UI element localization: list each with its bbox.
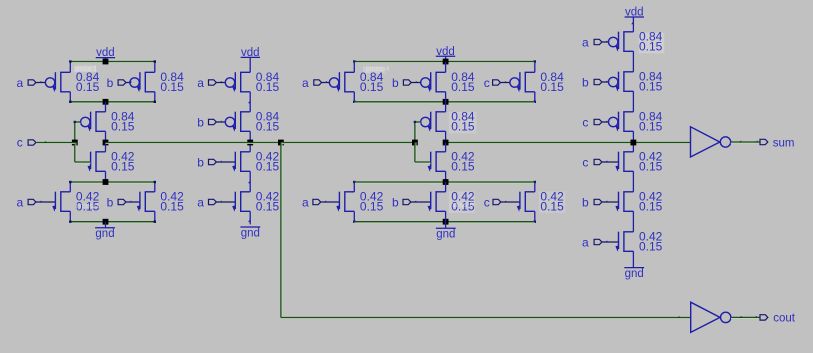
node junction col2 on c-line xyxy=(247,140,253,146)
svg-text:sum: sum xyxy=(773,137,795,149)
svg-text:0.15: 0.15 xyxy=(540,80,564,94)
wire N2 drain stubs xyxy=(154,182,156,192)
svg-text:0.15: 0.15 xyxy=(639,80,663,94)
wire N6 drain stubs xyxy=(353,182,355,192)
svg-text:gnd: gnd xyxy=(436,229,455,241)
wire P1 drain stubs xyxy=(69,62,71,73)
wire chain N4 to gnd xyxy=(249,211,251,224)
wire chain P11-P12 xyxy=(632,91,634,112)
pmos P3 pass gate (0.84/0.15) xyxy=(81,117,90,126)
op-amp style inverter U1 (sum) xyxy=(691,127,720,157)
wire gnd stub group3 xyxy=(445,222,447,228)
wire main net to sum inverter xyxy=(633,143,690,145)
wire chain P5-N5 xyxy=(249,131,251,152)
svg-text:0.15: 0.15 xyxy=(639,40,663,54)
wire chain P3 drain xyxy=(105,102,107,112)
svg-text:0.15: 0.15 xyxy=(540,200,564,214)
wire N8 drain stubs xyxy=(534,182,536,192)
node junction group3 pmos bottom xyxy=(443,99,449,105)
svg-text:gnd: gnd xyxy=(625,268,644,280)
wire U2 output xyxy=(731,318,760,320)
wire group3 pmos-trio bottom rail xyxy=(354,102,535,104)
svg-text:0.15: 0.15 xyxy=(451,160,475,174)
svg-text:a: a xyxy=(16,195,23,209)
ground gnd column4 xyxy=(624,267,644,269)
wire gate of P3 to c-net xyxy=(75,122,77,143)
wire group1 pmos-pair bottom rail xyxy=(70,102,155,104)
node junction group3 nmos top xyxy=(443,179,449,185)
wire cout branch horizontal xyxy=(281,318,691,320)
svg-text:b: b xyxy=(582,195,589,209)
wire main net segment 1 xyxy=(106,143,251,145)
svg-text:b: b xyxy=(197,155,204,169)
svg-text:0.15: 0.15 xyxy=(256,80,280,94)
wire tick chain P4-P5 xyxy=(248,101,250,104)
wire chain P4-P5 xyxy=(249,92,251,112)
node vdd junction group1 xyxy=(103,59,109,65)
wire chain N12-N11 xyxy=(632,171,634,192)
label highlight patches xyxy=(639,33,665,54)
node junction c-line at gate column xyxy=(72,140,78,146)
wire tick U2 output b xyxy=(754,316,757,318)
svg-text:c: c xyxy=(484,195,490,209)
svg-text:b: b xyxy=(582,75,589,89)
svg-text:nmos-6: nmos-6 xyxy=(450,202,473,209)
node corner dot P3 gate xyxy=(74,121,76,123)
wire group3 nmos-trio top rail xyxy=(354,182,535,184)
svg-text:0.15: 0.15 xyxy=(160,200,184,214)
svg-text:0.15: 0.15 xyxy=(76,80,100,94)
wire tick chain N5-N4 xyxy=(248,181,250,184)
wire chain N9 xyxy=(445,143,447,152)
svg-text:0.15: 0.15 xyxy=(639,120,663,134)
wire P2 drain stubs xyxy=(154,62,156,73)
svg-text:nmos-1: nmos-1 xyxy=(76,203,99,210)
nmos N3 pass gate (0.42/0.15) xyxy=(90,152,92,169)
wire gate of N9 to net xyxy=(415,143,417,163)
pmos P9 pass gate (0.84/0.15) xyxy=(421,117,430,126)
nmos N9 pass gate (0.42/0.15) xyxy=(430,152,432,169)
svg-text:0.15: 0.15 xyxy=(256,200,280,214)
ground gnd column2 xyxy=(240,226,260,228)
wire tick U1 output b xyxy=(755,141,758,143)
node junction group3 nmos bottom xyxy=(443,219,449,225)
node c input pin xyxy=(28,140,36,145)
wire vdd stub group3 xyxy=(445,56,447,61)
wire group3 nmos-trio bottom rail xyxy=(354,222,535,224)
svg-text:0.15: 0.15 xyxy=(451,80,475,94)
svg-text:pmos-1: pmos-1 xyxy=(74,66,97,73)
svg-text:cout: cout xyxy=(773,312,796,324)
svg-text:c: c xyxy=(582,115,588,129)
wire P7 drain stubs xyxy=(445,62,447,73)
svg-text:gnd: gnd xyxy=(95,228,114,240)
wire tick chain col4 top xyxy=(631,22,633,25)
svg-text:a: a xyxy=(302,76,309,90)
svg-text:c: c xyxy=(484,76,490,90)
wire gate of P9 to net xyxy=(415,122,417,143)
svg-text:0.15: 0.15 xyxy=(639,240,663,254)
svg-text:0.15: 0.15 xyxy=(360,80,384,94)
op-amp style inverter U2 (cout) xyxy=(691,302,720,332)
svg-text:b: b xyxy=(392,195,399,209)
node corner dot P9 gate xyxy=(414,121,416,123)
svg-text:b: b xyxy=(107,76,114,90)
node junction net at P9/N9 drain xyxy=(443,140,449,146)
wire chain N3 xyxy=(105,143,107,152)
wire tick cout branch xyxy=(677,316,680,318)
ground gnd group3 xyxy=(436,227,456,229)
svg-text:a: a xyxy=(16,76,23,90)
node junction group1 nmos-pair bottom xyxy=(103,219,109,225)
wire vdd stub group1 xyxy=(105,58,107,62)
wire chain col4 vdd to P10 xyxy=(632,17,634,32)
wire P6 drain stubs xyxy=(353,62,355,73)
wire tick U1 output a xyxy=(739,141,742,143)
svg-text:0.15: 0.15 xyxy=(160,80,184,94)
svg-text:gnd: gnd xyxy=(241,227,260,239)
wire tick U2 output a xyxy=(739,316,742,318)
node cout output pin xyxy=(760,315,768,320)
wire vdd rail group1 xyxy=(70,62,155,64)
svg-text:0.15: 0.15 xyxy=(256,160,280,174)
wire main net segment 3 xyxy=(281,143,415,145)
wire vdd rail group3 xyxy=(354,62,535,64)
node junction cout branch xyxy=(278,140,284,146)
svg-text:0.15: 0.15 xyxy=(111,160,135,174)
wire group1 nmos-pair top rail xyxy=(70,182,155,184)
svg-text:a: a xyxy=(197,195,204,209)
svg-text:0.15: 0.15 xyxy=(360,200,384,214)
wire main net segment 2 xyxy=(250,143,281,145)
wire gnd stub group1 xyxy=(105,222,107,228)
wire group1 nmos-pair bottom rail xyxy=(70,222,155,224)
node rail end dots xyxy=(69,60,71,62)
svg-text:pmos-4: pmos-4 xyxy=(366,66,389,73)
node junction col4 on net xyxy=(631,140,637,146)
svg-text:a: a xyxy=(302,195,309,209)
svg-text:0.15: 0.15 xyxy=(451,120,475,134)
node junction net at group3 gate column xyxy=(412,140,418,146)
svg-text:b: b xyxy=(197,115,204,129)
wire c input to net xyxy=(37,143,75,145)
wire U1 output xyxy=(731,142,760,144)
wire N1 drain stubs xyxy=(69,182,71,192)
svg-text:0.15: 0.15 xyxy=(256,120,280,134)
svg-text:b: b xyxy=(107,195,114,209)
wire tick c input xyxy=(43,141,46,143)
wire chain P9 drain xyxy=(445,102,447,112)
svg-text:0.15: 0.15 xyxy=(639,160,663,174)
svg-text:b: b xyxy=(392,76,399,90)
svg-text:a: a xyxy=(582,235,589,249)
ground gnd group1 xyxy=(95,227,115,229)
wire gate of N3 to c-net xyxy=(75,143,77,163)
wire chain N11-N10 xyxy=(632,211,634,232)
wire cout branch vertical xyxy=(281,143,283,318)
node junction c-line at P3/N3 drain xyxy=(103,140,109,146)
svg-text:c: c xyxy=(582,155,588,169)
svg-text:0.15: 0.15 xyxy=(639,200,663,214)
wire chain P10-P11 xyxy=(632,51,634,72)
node junction group1 nmos-pair top xyxy=(103,179,109,185)
node vdd junction group3 xyxy=(443,59,449,65)
wire chain col2 vdd to P4 xyxy=(249,57,251,72)
wire main net segment 4 xyxy=(446,143,634,145)
wire chain N5-N4 xyxy=(249,171,251,192)
svg-text:0.15: 0.15 xyxy=(111,120,135,134)
wire P8 drain stubs xyxy=(534,62,536,73)
node sum output pin xyxy=(760,139,768,144)
wire chain P12-N12 xyxy=(632,131,634,152)
wire chain N10 to gnd xyxy=(632,251,634,267)
svg-text:a: a xyxy=(197,76,204,90)
svg-text:c: c xyxy=(17,135,23,149)
node junction group1 pmos-pair bottom xyxy=(103,99,109,105)
wire N7 drain stubs xyxy=(445,182,447,192)
svg-text:a: a xyxy=(582,35,589,49)
